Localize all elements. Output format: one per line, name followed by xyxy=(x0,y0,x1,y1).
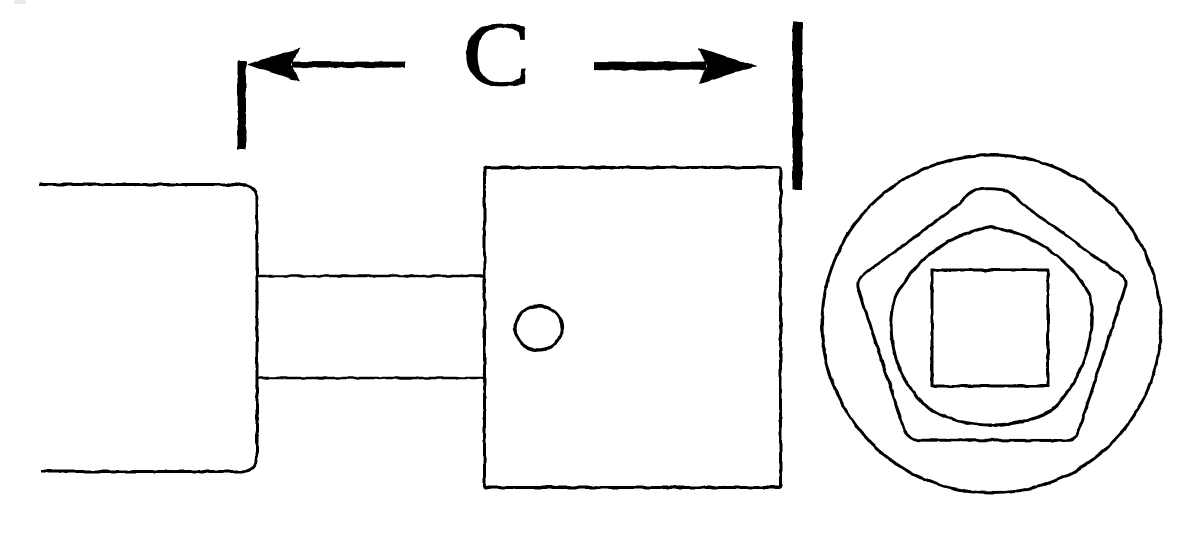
square drive hole xyxy=(932,270,1048,386)
inner pentagon relief outline xyxy=(891,227,1092,425)
right arrow shaft xyxy=(594,62,706,71)
pin hole xyxy=(515,306,562,350)
pentagon broach outline xyxy=(858,189,1126,441)
left extension tick xyxy=(238,61,247,150)
right extension tick xyxy=(793,22,803,190)
right arrowhead xyxy=(698,48,758,85)
left arrow shaft xyxy=(292,62,405,68)
shaft bottom line xyxy=(257,377,485,379)
faint scan smudge top-left xyxy=(14,0,26,4)
socket outer circle (end view) xyxy=(822,155,1161,493)
svg-text:C: C xyxy=(463,4,532,106)
shaft top line xyxy=(257,275,485,277)
drive body (left, broken view) xyxy=(39,185,257,472)
left arrowhead xyxy=(246,48,300,82)
socket block (side view) xyxy=(485,168,781,488)
